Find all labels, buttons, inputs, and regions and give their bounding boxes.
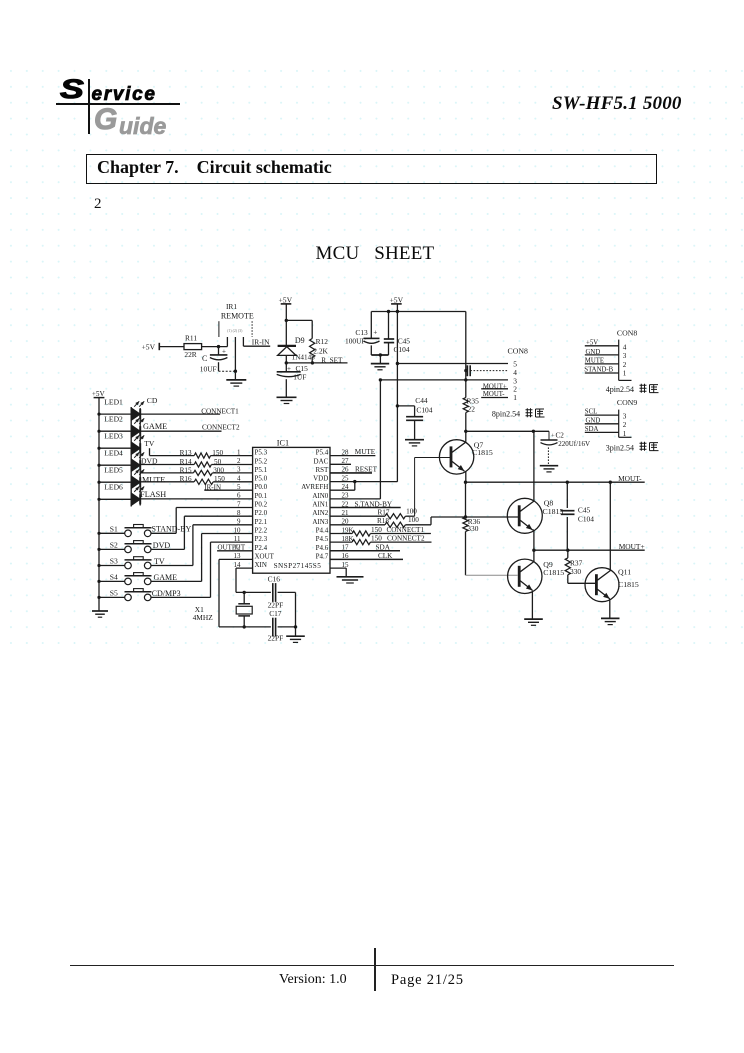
capacitor C16 22PF <box>236 575 296 610</box>
svg-text:P4.4: P4.4 <box>316 527 329 535</box>
svg-text:P0.0: P0.0 <box>255 483 268 491</box>
transistor Q8 C1815 <box>507 498 563 533</box>
node junction Q11 collector tap <box>609 481 612 484</box>
wire MOUT- rail <box>466 481 645 483</box>
model number <box>552 93 682 115</box>
svg-text:P4.5: P4.5 <box>316 535 329 543</box>
wire D9 to R_SET <box>286 362 347 364</box>
wire C14 to IR1 pin2 (dotted) <box>219 370 236 372</box>
wire +5V top rail <box>371 304 466 312</box>
wire XOUT to crystal <box>219 559 253 627</box>
svg-text:R14: R14 <box>180 458 192 466</box>
svg-text:S5: S5 <box>110 589 118 598</box>
svg-text:P5.2: P5.2 <box>255 457 268 465</box>
net label OUTPUT pin12 <box>217 543 253 551</box>
svg-text:DAC: DAC <box>314 457 329 465</box>
node junction C45 top <box>387 310 390 313</box>
net label STAND-BY pin22 <box>330 500 401 508</box>
svg-text:SDA: SDA <box>376 543 391 551</box>
wire Q9 collector <box>533 550 535 562</box>
node junction D9/R12 top <box>285 319 288 322</box>
svg-text:S.TAND-BY: S.TAND-BY <box>355 500 393 508</box>
svg-text:SDA: SDA <box>585 426 599 433</box>
ground (C2) <box>540 466 558 472</box>
wire S5 to P23 pin11 <box>211 542 253 597</box>
capacitor C44 C104 <box>397 396 432 439</box>
svg-text:1: 1 <box>623 430 627 438</box>
svg-text:GND: GND <box>586 349 601 356</box>
ground (Q9) <box>524 619 543 625</box>
node junction Q7 emitter <box>464 481 467 484</box>
svg-text:150: 150 <box>214 475 225 483</box>
switch S3 TV <box>97 557 192 569</box>
svg-text:CONNECT2: CONNECT2 <box>202 423 240 431</box>
switch S5 CD/MP3 <box>97 589 210 601</box>
node junction C2 rail <box>532 430 535 433</box>
svg-text:D9: D9 <box>295 336 305 345</box>
switch S2 DVD <box>97 541 184 553</box>
net label MUTE pin28 <box>330 448 376 456</box>
node junction +5V feed <box>396 310 399 313</box>
switch S1 STAND-BY <box>97 525 191 537</box>
wire R36 to Q9 base <box>466 532 518 576</box>
svg-text:R11: R11 <box>185 333 197 342</box>
LED LED1 CD <box>97 398 144 421</box>
wire S4 to P22 pin10 <box>202 534 253 582</box>
svg-text:AIN3: AIN3 <box>312 518 328 526</box>
svg-text:DVD: DVD <box>153 541 171 550</box>
switch S4 GAME <box>97 573 201 585</box>
svg-text:CD/MP3: CD/MP3 <box>152 589 181 598</box>
svg-text:R17: R17 <box>378 508 390 516</box>
capacitor C45 C104 <box>384 312 411 356</box>
LED LED5 MUTE <box>97 466 144 489</box>
resistor R11 22R <box>184 333 202 359</box>
svg-text:100: 100 <box>408 516 419 524</box>
wire Q7 emitter down <box>465 471 467 482</box>
wire AVREFH pin24 <box>330 489 355 491</box>
svg-text:C104: C104 <box>416 406 432 415</box>
wire +5V vertical feed <box>396 312 398 482</box>
resistor R13 150 <box>150 448 253 458</box>
svg-text:LED3: LED3 <box>104 432 123 441</box>
logo Service Guide <box>57 74 257 138</box>
node junction crystal bottom <box>243 625 246 628</box>
svg-text:RESET: RESET <box>355 466 378 474</box>
svg-text:C1815: C1815 <box>543 568 564 577</box>
svg-text:330: 330 <box>467 524 478 533</box>
svg-text:MUTE: MUTE <box>585 357 604 364</box>
svg-text:220Uf/16V: 220Uf/16V <box>558 440 590 448</box>
ground (C13/C45) <box>371 355 389 370</box>
svg-text:Q11: Q11 <box>618 567 631 576</box>
svg-text:C1815: C1815 <box>472 448 493 457</box>
svg-text:AIN0: AIN0 <box>312 492 328 500</box>
ground (crystal) <box>286 636 305 642</box>
crystal X1 4MHZ <box>193 592 253 627</box>
LED LED6 FLASH <box>97 483 144 506</box>
svg-text:SCL: SCL <box>585 409 597 416</box>
svg-text:MOUT+: MOUT+ <box>483 383 507 390</box>
svg-text:+5V: +5V <box>142 343 156 352</box>
+5V supply (LED rail) <box>92 390 106 398</box>
capacitor on CON8 pin4 <box>464 365 508 376</box>
svg-text:C1815: C1815 <box>618 580 639 589</box>
svg-text:P0.2: P0.2 <box>255 501 268 509</box>
svg-text:+: + <box>551 432 555 439</box>
svg-text:S2: S2 <box>110 541 118 550</box>
wire +5V to R12 <box>286 320 312 338</box>
wire R11 to IR1 pin1 <box>202 346 228 348</box>
resistor R15 300 <box>140 466 252 475</box>
net label IR-IN pin5 <box>204 483 252 491</box>
svg-text:VDD: VDD <box>313 475 328 483</box>
svg-text:100UF: 100UF <box>345 336 366 345</box>
footer rule <box>70 965 674 966</box>
svg-text:+: + <box>373 329 377 337</box>
node junction rail y363 <box>396 362 399 365</box>
svg-text:AIN1: AIN1 <box>312 501 328 509</box>
svg-text:CON9: CON9 <box>617 398 637 407</box>
page number 2 <box>94 196 102 213</box>
capacitor C2 220UF/16V <box>541 431 591 465</box>
wire crystal right leg <box>295 592 297 636</box>
wire C13/C45 bottom rail <box>371 354 388 356</box>
node junction R12 bottom <box>311 361 314 364</box>
svg-text:P0.1: P0.1 <box>255 492 268 500</box>
wire Q11 emitter <box>609 599 611 618</box>
svg-text:S1: S1 <box>110 525 118 534</box>
ground (pin15) <box>337 577 364 583</box>
svg-text:C45: C45 <box>578 505 591 514</box>
wire Q7 base <box>415 458 451 517</box>
resistor R18 100 <box>330 516 431 527</box>
IR receiver IR1 REMOTE <box>219 302 254 371</box>
resistor R16 150 <box>140 475 252 484</box>
svg-text:C104: C104 <box>578 514 594 523</box>
wire AIN0 pin23 <box>330 498 380 500</box>
node junction VDD/AVREFH <box>353 480 356 490</box>
svg-text:2: 2 <box>623 421 627 429</box>
node junction R11/C14 <box>217 345 220 348</box>
svg-text:+5V: +5V <box>390 295 404 304</box>
svg-text:1: 1 <box>623 369 627 377</box>
svg-text:300: 300 <box>213 466 224 474</box>
svg-text:4: 4 <box>623 343 627 351</box>
svg-text:P5.1: P5.1 <box>255 466 268 474</box>
LED LED4 DVD <box>97 449 144 472</box>
wire AVREF rail (CON8 pin3) <box>380 379 508 381</box>
net label R_SET <box>321 356 343 364</box>
ground (C44) <box>405 440 424 446</box>
connector CON8 (5 pin) <box>481 346 528 402</box>
svg-text:+5V: +5V <box>586 339 598 346</box>
svg-text:CONNECT1: CONNECT1 <box>201 407 239 415</box>
label 3pin2.54 socket <box>606 442 659 453</box>
svg-text:IR-IN: IR-IN <box>252 337 270 346</box>
svg-text:C1815: C1815 <box>543 507 564 516</box>
resistor R14 50 <box>140 458 252 467</box>
svg-text:22PF: 22PF <box>268 633 284 642</box>
LED LED3 TV <box>97 432 144 455</box>
svg-text:GND: GND <box>586 417 601 424</box>
node junction IR1 pin2 / C14 <box>234 370 237 373</box>
svg-text:TV: TV <box>154 557 165 566</box>
svg-text:150: 150 <box>212 449 223 457</box>
svg-text:OUTPUT: OUTPUT <box>218 543 246 551</box>
svg-text:22: 22 <box>468 405 476 414</box>
net label MOUT- <box>618 474 642 483</box>
svg-text:P2.1: P2.1 <box>255 518 268 526</box>
capacitor C15 1UF <box>277 363 308 397</box>
+5V supply (D9) <box>279 295 293 320</box>
capacitor C45b C104 <box>561 482 594 550</box>
svg-text:CONNECT1: CONNECT1 <box>387 526 425 534</box>
svg-text:CD: CD <box>147 396 158 405</box>
label 8pin2.54 socket <box>492 408 545 418</box>
wire XIN to crystal <box>236 568 253 592</box>
svg-text:S4: S4 <box>110 573 118 582</box>
wire rail to CON8 pin5 <box>397 363 508 365</box>
svg-text:R13: R13 <box>180 449 192 457</box>
svg-text:STAND-B: STAND-B <box>584 367 613 374</box>
svg-text:GAME: GAME <box>143 422 167 431</box>
node junction right leg <box>294 625 297 628</box>
svg-text:1UF: 1UF <box>293 373 306 382</box>
svg-text:IC1: IC1 <box>277 438 289 447</box>
node junction Q8 emitter <box>532 549 535 552</box>
wire pin27 stub <box>330 463 351 465</box>
svg-text:GAME: GAME <box>154 573 178 582</box>
wire R37 to Q11 base <box>568 575 597 584</box>
svg-text:LED4: LED4 <box>104 449 123 458</box>
svg-text:3: 3 <box>623 352 627 360</box>
node junction C45b top <box>566 481 569 484</box>
svg-text:P2.3: P2.3 <box>255 535 268 543</box>
svg-text:C16: C16 <box>268 575 281 584</box>
svg-text:P2.4: P2.4 <box>255 544 268 552</box>
svg-text:MOUT-: MOUT- <box>483 391 505 398</box>
svg-text:100: 100 <box>406 508 417 516</box>
svg-text:LED5: LED5 <box>104 466 123 475</box>
svg-text:C2: C2 <box>556 432 565 440</box>
footer divider <box>374 948 375 991</box>
resistor R36 330 <box>463 517 481 533</box>
svg-text:AIN2: AIN2 <box>312 509 328 517</box>
wire S2 to P20 pin8 <box>184 516 252 549</box>
capacitor C13 100UF <box>345 312 380 356</box>
wire MOUT+ rail <box>534 549 645 551</box>
svg-text:LED2: LED2 <box>104 415 123 424</box>
svg-text:IR1: IR1 <box>226 302 237 311</box>
resistor 150 CONNECT1 pin19 <box>330 526 431 536</box>
svg-text:R16: R16 <box>180 475 192 483</box>
svg-text:C: C <box>202 354 207 363</box>
svg-text:3pin2.54: 3pin2.54 <box>606 443 634 452</box>
net label IR-IN <box>243 337 270 346</box>
svg-text:P5.3: P5.3 <box>255 449 268 457</box>
node junction Q7 collector rail <box>464 430 467 433</box>
net label SDA pin17 <box>330 543 400 551</box>
svg-text:MOUT-: MOUT- <box>618 474 642 483</box>
wire R36 top lead <box>465 482 467 517</box>
sheet title <box>316 243 435 265</box>
diode D9 1N4148 <box>278 320 316 363</box>
wire +5V to R11 <box>159 346 184 348</box>
wire pin15 to ground <box>330 568 346 577</box>
svg-text:P4.6: P4.6 <box>316 544 329 552</box>
svg-text:150: 150 <box>371 526 382 534</box>
svg-text:+5V: +5V <box>279 295 293 304</box>
svg-text:R_SET: R_SET <box>321 356 343 364</box>
svg-text:MUTE: MUTE <box>355 448 376 456</box>
svg-text:C17: C17 <box>269 609 282 618</box>
+5V supply (R11) <box>142 343 160 352</box>
MCU IC1 SN8P2714 <box>253 438 330 573</box>
svg-text:22R: 22R <box>184 350 196 359</box>
wire collector rail to C2 <box>466 430 549 432</box>
svg-text:3: 3 <box>623 413 627 421</box>
svg-text:XOUT: XOUT <box>255 552 275 560</box>
resistor R37 330 <box>565 550 582 576</box>
svg-text:IR-IN: IR-IN <box>204 483 221 491</box>
connector CON8 (4 pin header) <box>584 328 637 380</box>
node junction R37 top <box>566 549 569 552</box>
svg-text:CONNECT2: CONNECT2 <box>387 535 425 543</box>
svg-text:P4.7: P4.7 <box>316 552 329 560</box>
net label RESET pin26 <box>330 466 378 474</box>
svg-text:S3: S3 <box>110 557 118 566</box>
net label MOUT+ <box>619 542 645 551</box>
node junction caps bottom <box>379 353 382 356</box>
node junction D9 anode <box>285 361 288 364</box>
svg-text:150: 150 <box>371 535 382 543</box>
wire VDD pin25 to +5V <box>330 481 397 483</box>
wire Q8 emitter <box>533 530 534 550</box>
svg-text:R12: R12 <box>316 337 329 346</box>
wire Q8 base from R18 <box>431 516 519 518</box>
wire S1 to P02 pin7 <box>176 508 252 534</box>
wire LED6 to P0.1 <box>140 498 252 500</box>
node junction C44 tap <box>396 404 399 407</box>
svg-text:CON8: CON8 <box>617 328 637 337</box>
svg-text:RST: RST <box>315 466 329 474</box>
svg-text:P2.0: P2.0 <box>255 509 268 517</box>
svg-text:4MHZ: 4MHZ <box>193 613 214 622</box>
svg-text:22PF: 22PF <box>268 600 284 609</box>
svg-text:XIN: XIN <box>255 561 267 569</box>
svg-text:P2.2: P2.2 <box>255 527 268 535</box>
node junction crystal top <box>243 591 246 594</box>
ground (IR1) <box>226 371 246 386</box>
net label CONNECT2 <box>140 423 240 431</box>
node junction Q8 base / R36 <box>464 515 467 518</box>
svg-text:2: 2 <box>623 361 627 369</box>
svg-text:FLASH: FLASH <box>140 490 166 499</box>
LED LED2 GAME <box>97 415 144 438</box>
resistor R35 22 <box>463 396 479 413</box>
svg-text:STAND-BY: STAND-BY <box>152 525 192 534</box>
resistor R17 100 <box>330 508 417 519</box>
svg-text:C104: C104 <box>394 345 410 354</box>
wire R35 to Q7 collector <box>465 413 467 442</box>
svg-text:MOUT+: MOUT+ <box>619 542 645 551</box>
wire vertical to AIN0 <box>379 380 381 499</box>
IC1 pin labels and numbers <box>234 448 354 569</box>
wire LED anode rail <box>98 398 100 611</box>
transistor Q9 C1815 <box>508 559 565 593</box>
svg-text:TV: TV <box>144 439 155 448</box>
svg-text:LED6: LED6 <box>104 483 123 492</box>
LED function labels <box>140 396 167 499</box>
svg-text:8pin2.54: 8pin2.54 <box>492 410 520 419</box>
svg-text:10UF: 10UF <box>200 365 217 374</box>
capacitor C14 10UF <box>200 347 228 374</box>
wire +5V right vertical <box>465 312 467 398</box>
resistor R12 2.2K <box>310 337 329 363</box>
wire Q9 emitter <box>531 591 533 619</box>
net label CONNECT1 <box>140 407 239 415</box>
chapter heading box <box>86 154 657 184</box>
transistor Q7 C1815 <box>439 440 492 474</box>
label 4pin2.54 socket <box>606 384 659 394</box>
svg-text:(1) (2) (3): (1) (2) (3) <box>227 329 243 333</box>
wire Q11 collector <box>609 482 611 570</box>
svg-text:R18: R18 <box>377 517 389 525</box>
wire S3 to P21 pin9 <box>193 525 253 566</box>
node junction pin3 rail <box>464 378 467 381</box>
svg-text:SNSP27145S5: SNSP27145S5 <box>274 562 322 570</box>
svg-text:50: 50 <box>214 458 222 466</box>
svg-text:REMOTE: REMOTE <box>221 312 254 321</box>
+5V supply (main rail) <box>390 295 404 304</box>
svg-text:4pin2.54: 4pin2.54 <box>606 385 634 394</box>
wire Q8 collector <box>533 431 535 501</box>
resistor 150 CONNECT2 pin18 <box>330 535 432 545</box>
svg-text:LED1: LED1 <box>104 398 123 407</box>
svg-text:P5.4: P5.4 <box>316 449 329 457</box>
svg-text:CLK: CLK <box>378 552 393 560</box>
ground (C15) <box>277 397 297 403</box>
svg-text:DVD: DVD <box>141 456 158 465</box>
ground (Q11) <box>601 618 620 624</box>
svg-text:P5.0: P5.0 <box>255 475 268 483</box>
connector CON9 (3 pin header) <box>585 398 638 438</box>
svg-text:C44: C44 <box>415 396 428 405</box>
svg-text:2.2K: 2.2K <box>313 346 328 355</box>
ground (switch rail) <box>92 611 108 617</box>
svg-text:MUTE: MUTE <box>142 476 165 485</box>
svg-text:330: 330 <box>570 567 581 576</box>
svg-text:CON8: CON8 <box>508 346 528 355</box>
net label CLK pin16 <box>330 552 403 560</box>
svg-text:AVREFH: AVREFH <box>301 483 328 491</box>
transistor Q11 C1815 <box>585 567 639 601</box>
node junction AVREF rail <box>379 378 382 381</box>
LED block rails <box>131 407 140 507</box>
svg-text:R15: R15 <box>180 466 192 474</box>
svg-text:1: 1 <box>513 393 517 402</box>
capacitor C17 22PF <box>219 609 296 642</box>
